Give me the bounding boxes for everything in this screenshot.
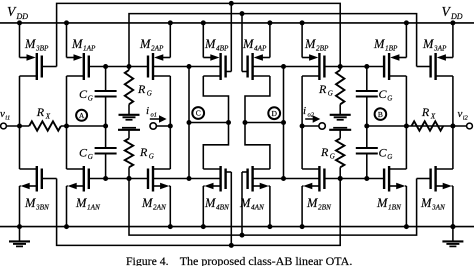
capacitor CG lower left [105, 126, 107, 148]
rail dot M2AN source [168, 224, 173, 229]
wire bulk bottom left [153, 178, 221, 180]
resistor RG lower right [336, 138, 344, 167]
wire bulk vertical left [188, 67, 190, 179]
rail dot M2BN source [300, 224, 305, 229]
rail dot M2BP source [300, 20, 305, 25]
wire M4BP gate vertical [230, 3, 232, 71]
junction dot L2 to M4AP gate [240, 11, 245, 16]
transistor M2AP [169, 23, 171, 58]
bias line L1 (M3BP gate to B-side gates) [57, 3, 341, 66]
ground right [452, 227, 454, 242]
junction dot M3B drains at mid wire [17, 124, 22, 129]
svg-text:i: i [303, 105, 306, 117]
svg-text:1AN: 1AN [87, 203, 101, 211]
rail dot M1AP source [64, 20, 69, 25]
junction dot M2B drains at mid wire [300, 124, 305, 129]
svg-text:i1: i1 [5, 115, 10, 122]
junction dot L1 corner / RG right top [338, 64, 343, 69]
svg-text:DD: DD [450, 12, 463, 21]
wire node C segment [189, 122, 229, 124]
wire node D segment [245, 122, 284, 124]
junction dot M3A drains at mid wire [450, 124, 455, 129]
svg-text:R: R [137, 82, 146, 96]
svg-text:G: G [147, 89, 152, 97]
wire M4BN gate vertical [230, 172, 232, 245]
svg-text:i: i [146, 105, 149, 117]
bias line L2B (A-side gates N to M3AN gate) [129, 179, 417, 236]
svg-text:X: X [430, 112, 436, 120]
svg-text:M: M [422, 37, 434, 51]
bias line L2 (A-side gates to M3AP gate) [129, 14, 417, 67]
wire drain column M2B [301, 76, 303, 169]
svg-text:M: M [71, 37, 83, 51]
ground RG lower left [122, 127, 136, 129]
transistor M3AP [452, 23, 454, 58]
wire M4BP drain jog [203, 76, 228, 123]
svg-text:R: R [139, 145, 148, 159]
svg-text:G: G [149, 152, 154, 160]
svg-text:M: M [139, 37, 151, 51]
capacitor CG upper left [105, 67, 107, 92]
svg-text:C: C [379, 87, 388, 101]
svg-text:The proposed class-AB linear O: The proposed class-AB linear OTA. [180, 254, 353, 266]
svg-text:D: D [271, 109, 277, 118]
svg-text:M: M [373, 37, 385, 51]
resistor RX left [29, 121, 61, 130]
junction dot CG right top [364, 64, 369, 69]
resistor RX right [412, 121, 444, 130]
junction dot M1A drains at mid wire [64, 124, 69, 129]
transistor M1AN [67, 168, 84, 170]
rail dot M1BN source [404, 224, 409, 229]
wire bulk vertical right [283, 67, 285, 179]
transistor M3BN [20, 168, 37, 170]
arrow io1 [150, 118, 160, 120]
svg-text:3BP: 3BP [35, 44, 49, 52]
rail dot M1BP source [404, 20, 409, 25]
wire M4BN drain jog [203, 123, 228, 170]
svg-text:A: A [79, 111, 85, 120]
svg-text:G: G [88, 153, 93, 161]
junction dot bulk right at node D wire [281, 120, 286, 125]
svg-text:3AP: 3AP [433, 44, 447, 52]
junction dot L1 to M4BP gate [229, 1, 234, 6]
wire RX to node A [61, 125, 108, 127]
junction dot M1B drains at mid wire [404, 124, 409, 129]
svg-text:4BP: 4BP [216, 44, 229, 52]
ground left [19, 227, 21, 242]
VSS rail [0, 226, 474, 228]
bias line L1B (M3BN gate to B-side gates N) [57, 179, 341, 246]
junction dot CG right mid [364, 124, 369, 129]
svg-text:C: C [196, 109, 201, 118]
node D [268, 107, 280, 119]
wire M4AN drain jog [245, 123, 270, 170]
svg-text:2BP: 2BP [316, 44, 329, 52]
svg-text:R: R [320, 145, 329, 159]
transistor M3BP [19, 23, 21, 58]
svg-text:X: X [45, 112, 51, 120]
wire vi1 to RX [6, 125, 29, 127]
rail dot M3AP source [450, 20, 455, 25]
node C [192, 107, 204, 119]
wire M2B drains to io2 [302, 125, 319, 127]
junction dot M4B jog at node C wire [226, 120, 231, 125]
transistor M4AN [253, 168, 270, 170]
wire drain column M3B [19, 76, 21, 169]
svg-text:C: C [379, 146, 388, 160]
input terminal vi1 [1, 123, 7, 129]
svg-text:M: M [204, 196, 216, 210]
transistor M3AN [436, 168, 453, 170]
svg-text:M: M [239, 196, 251, 210]
ground RG upper right [339, 104, 341, 115]
wire M4AN gate vertical [241, 172, 243, 235]
svg-text:R: R [318, 82, 327, 96]
junction dot M2A drains at mid wire [168, 124, 173, 129]
svg-text:M: M [242, 37, 254, 51]
junction dot ground right [450, 224, 455, 229]
wire B-side gate wire [324, 66, 384, 68]
resistor RG upper left [128, 67, 130, 71]
svg-text:G: G [328, 89, 333, 97]
junction dot bulk bottom left [187, 176, 192, 181]
junction dot bulk left at node C wire [187, 120, 192, 125]
svg-text:M: M [204, 37, 216, 51]
svg-text:1AP: 1AP [83, 44, 96, 52]
rail dot M3AN source [450, 224, 455, 229]
wire io1 to M2A drains [157, 125, 171, 127]
wire bulk top left (M2AP to M4BP) [153, 66, 221, 68]
svg-text:1BN: 1BN [388, 203, 402, 211]
junction dot RG left top [127, 64, 132, 69]
rail dot M3BP source [17, 20, 22, 25]
junction dot CG left top [103, 64, 108, 69]
svg-text:4AP: 4AP [254, 44, 267, 52]
junction dot RG left bottom [127, 176, 132, 181]
svg-text:G: G [330, 152, 335, 160]
transistor M4BP [202, 23, 204, 58]
wire bulk top right (M4AP to M2BP) [253, 66, 320, 68]
junction dot L2B to M4AN gate [240, 233, 245, 238]
ground RG upper left [128, 104, 130, 115]
output terminal io1 [150, 123, 156, 129]
svg-text:3BN: 3BN [35, 203, 50, 211]
wire A-side gate wire [89, 66, 148, 68]
svg-text:DD: DD [16, 12, 29, 21]
junction dot CG left bottom [103, 176, 108, 181]
svg-text:G: G [387, 153, 392, 161]
svg-text:Figure 4.: Figure 4. [126, 254, 169, 266]
wire bulk bottom right [253, 178, 320, 180]
svg-text:G: G [387, 94, 392, 102]
rail dot M4AP source [267, 20, 272, 25]
junction dot L1B corner bottom [338, 176, 343, 181]
transistor M1AP [66, 23, 68, 58]
svg-text:C: C [79, 146, 88, 160]
svg-text:4BN: 4BN [216, 203, 230, 211]
svg-text:R: R [36, 105, 45, 119]
rail dot M2AP source [168, 20, 173, 25]
junction dot bulk bottom right [281, 176, 286, 181]
capacitor CG lower right [366, 126, 368, 148]
svg-text:4AN: 4AN [251, 203, 265, 211]
rail dot M4BP source [201, 20, 206, 25]
transistor M4AP [269, 23, 271, 58]
svg-text:M: M [306, 196, 318, 210]
rail dot M3BN source [17, 224, 22, 229]
rail dot M4BN source [201, 224, 206, 229]
junction dot bulk top right [281, 64, 286, 69]
junction dot M4A jog at node D wire [243, 120, 248, 125]
junction dot bulk top left [187, 64, 192, 69]
junction dot RG left bottom wire [127, 176, 132, 181]
wire drain column M2A [169, 76, 171, 169]
wire A-side gate wire N [89, 178, 148, 180]
svg-text:M: M [376, 196, 388, 210]
transistor M2BN [302, 168, 319, 170]
svg-text:2AN: 2AN [153, 203, 167, 211]
resistor RG upper right [339, 67, 341, 71]
svg-text:3AN: 3AN [431, 203, 446, 211]
svg-text:M: M [141, 196, 153, 210]
svg-text:M: M [420, 196, 432, 210]
node B [375, 108, 387, 120]
junction dot CG right bottom [364, 176, 369, 181]
wire M4AP gate vertical [241, 14, 243, 72]
junction dot CG left mid [103, 124, 108, 129]
svg-text:1BP: 1BP [385, 44, 398, 52]
wire M4AP drain jog [245, 76, 270, 123]
svg-text:C: C [79, 87, 88, 101]
output terminal io2 [319, 123, 325, 129]
junction dot L1B to M4BN gate [229, 243, 234, 248]
VDD rail [0, 22, 474, 24]
ground RG lower right [333, 127, 347, 129]
wire B-side gate wire N [324, 178, 384, 180]
junction dot RG right bottom [338, 176, 343, 181]
resistor RG lower left [125, 138, 133, 167]
rail dot M4AN source [267, 224, 272, 229]
wire right segment [365, 125, 467, 127]
node A [76, 110, 87, 121]
transistor M1BP [405, 23, 407, 58]
svg-text:i2: i2 [463, 115, 469, 122]
svg-text:B: B [378, 110, 383, 119]
transistor M1BN [389, 168, 406, 170]
rail dot M1AN source [64, 224, 69, 229]
svg-text:2BN: 2BN [318, 203, 332, 211]
transistor M2BP [301, 23, 303, 58]
svg-text:M: M [24, 196, 36, 210]
wire drain column M1A [66, 76, 68, 169]
svg-text:M: M [24, 37, 36, 51]
wire drain column M1B [405, 76, 407, 169]
svg-text:M: M [75, 196, 87, 210]
arrow io2 [305, 118, 313, 120]
svg-text:2AP: 2AP [151, 44, 164, 52]
svg-text:G: G [88, 94, 93, 102]
transistor M2AN [153, 168, 170, 170]
svg-text:o1: o1 [151, 112, 158, 119]
svg-text:R: R [421, 105, 430, 119]
svg-text:M: M [304, 37, 316, 51]
input terminal vi2 [467, 123, 473, 129]
capacitor CG upper right [366, 67, 368, 92]
transistor M4BN [203, 168, 220, 170]
wire drain column M3A [452, 76, 454, 169]
